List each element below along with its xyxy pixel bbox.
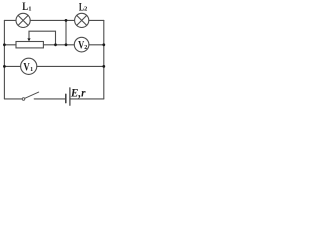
wire branch from top rail junction down to row2	[65, 20, 67, 44]
lamp L2 cross	[77, 15, 87, 25]
junction node dot left rail row3	[3, 65, 6, 68]
wire right vertical rail x=103.8	[103, 20, 105, 99]
rheostat wiper lead: up from arrow, across, down to row2	[29, 31, 56, 45]
svg-text:1: 1	[30, 67, 33, 73]
junction node dot branch row2	[65, 43, 68, 46]
junction node dot right rail row3	[102, 65, 105, 68]
junction node dot left rail row2	[3, 43, 6, 46]
wire top rail from L2 to right corner	[89, 19, 104, 21]
lamp L1 circle	[16, 13, 30, 27]
svg-text:1: 1	[28, 5, 31, 12]
wire bottom from battery to right corner	[70, 98, 103, 100]
voltmeter V1 circle	[21, 58, 37, 74]
switch S pivot circle	[22, 98, 25, 101]
wire top-left: left vertical rail x=4.4 from y=20.4 to y=98.9	[3, 20, 5, 99]
junction node dot right rail row2	[102, 43, 105, 46]
voltmeter V2 circle	[74, 37, 89, 52]
wire top rail between L1 and L2	[30, 19, 74, 21]
svg-text:2: 2	[84, 6, 88, 13]
wire row2 from V2 to right rail	[89, 44, 104, 46]
lamp L2 circle	[75, 13, 89, 27]
wire row3 from V1 to right rail	[37, 65, 104, 67]
wire top rail segment from left corner to lamp L1	[4, 19, 16, 21]
battery long plate (positive)	[69, 88, 71, 106]
rheostat R body rectangle	[16, 42, 43, 48]
wire row3 from left rail to voltmeter V1	[4, 65, 20, 67]
battery short plate (negative)	[65, 94, 67, 102]
svg-text:V: V	[78, 39, 84, 51]
wire bottom from switch contact to battery	[34, 98, 65, 100]
wire row2 from left rail to rheostat	[4, 44, 16, 46]
rheostat wiper arrowhead	[27, 38, 30, 41]
junction node dot on top rail	[65, 19, 68, 22]
wire row2 from rheostat to V2	[43, 44, 74, 46]
svg-text:2: 2	[84, 45, 87, 51]
svg-text:V: V	[23, 61, 29, 73]
svg-text:E,r: E,r	[70, 85, 86, 99]
switch S lever (open)	[25, 92, 39, 98]
wire bottom from left corner to switch pivot	[4, 98, 21, 100]
lamp L1 cross	[18, 15, 28, 25]
junction node dot wiper return row2	[54, 43, 57, 46]
